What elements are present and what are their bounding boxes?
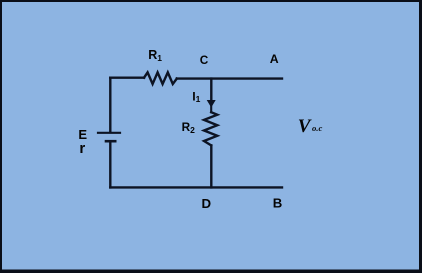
wire R1 to node A <box>177 77 282 79</box>
svg-text:V: V <box>298 116 312 137</box>
battery E r : long plate <box>98 132 120 134</box>
svg-text:D: D <box>202 196 212 211</box>
svg-text:B: B <box>273 196 283 211</box>
svg-text:o.c: o.c <box>312 123 322 133</box>
border frame <box>0 0 422 2</box>
svg-text:r: r <box>79 140 85 157</box>
wire I1 arrowhead to R2 <box>210 105 212 112</box>
resistor R2 (vertical) <box>204 112 217 145</box>
svg-text:A: A <box>270 52 279 66</box>
battery E r : short plate <box>106 140 115 143</box>
wire top-left horizontal (battery top to R1) <box>110 76 144 78</box>
wire left vertical upper (to battery) <box>109 78 111 132</box>
resistor R1 <box>144 72 177 84</box>
wire node C vertical with current I1 <box>210 79 212 101</box>
arrowhead I1 <box>207 100 216 108</box>
label V o.c <box>298 116 323 137</box>
svg-text:C: C <box>200 53 209 67</box>
label R1 <box>78 48 282 211</box>
wire R2 to bottom wire <box>210 145 212 187</box>
wire left vertical lower (battery to bottom wire) <box>109 142 111 188</box>
wire bottom horizontal D to B <box>110 186 282 188</box>
